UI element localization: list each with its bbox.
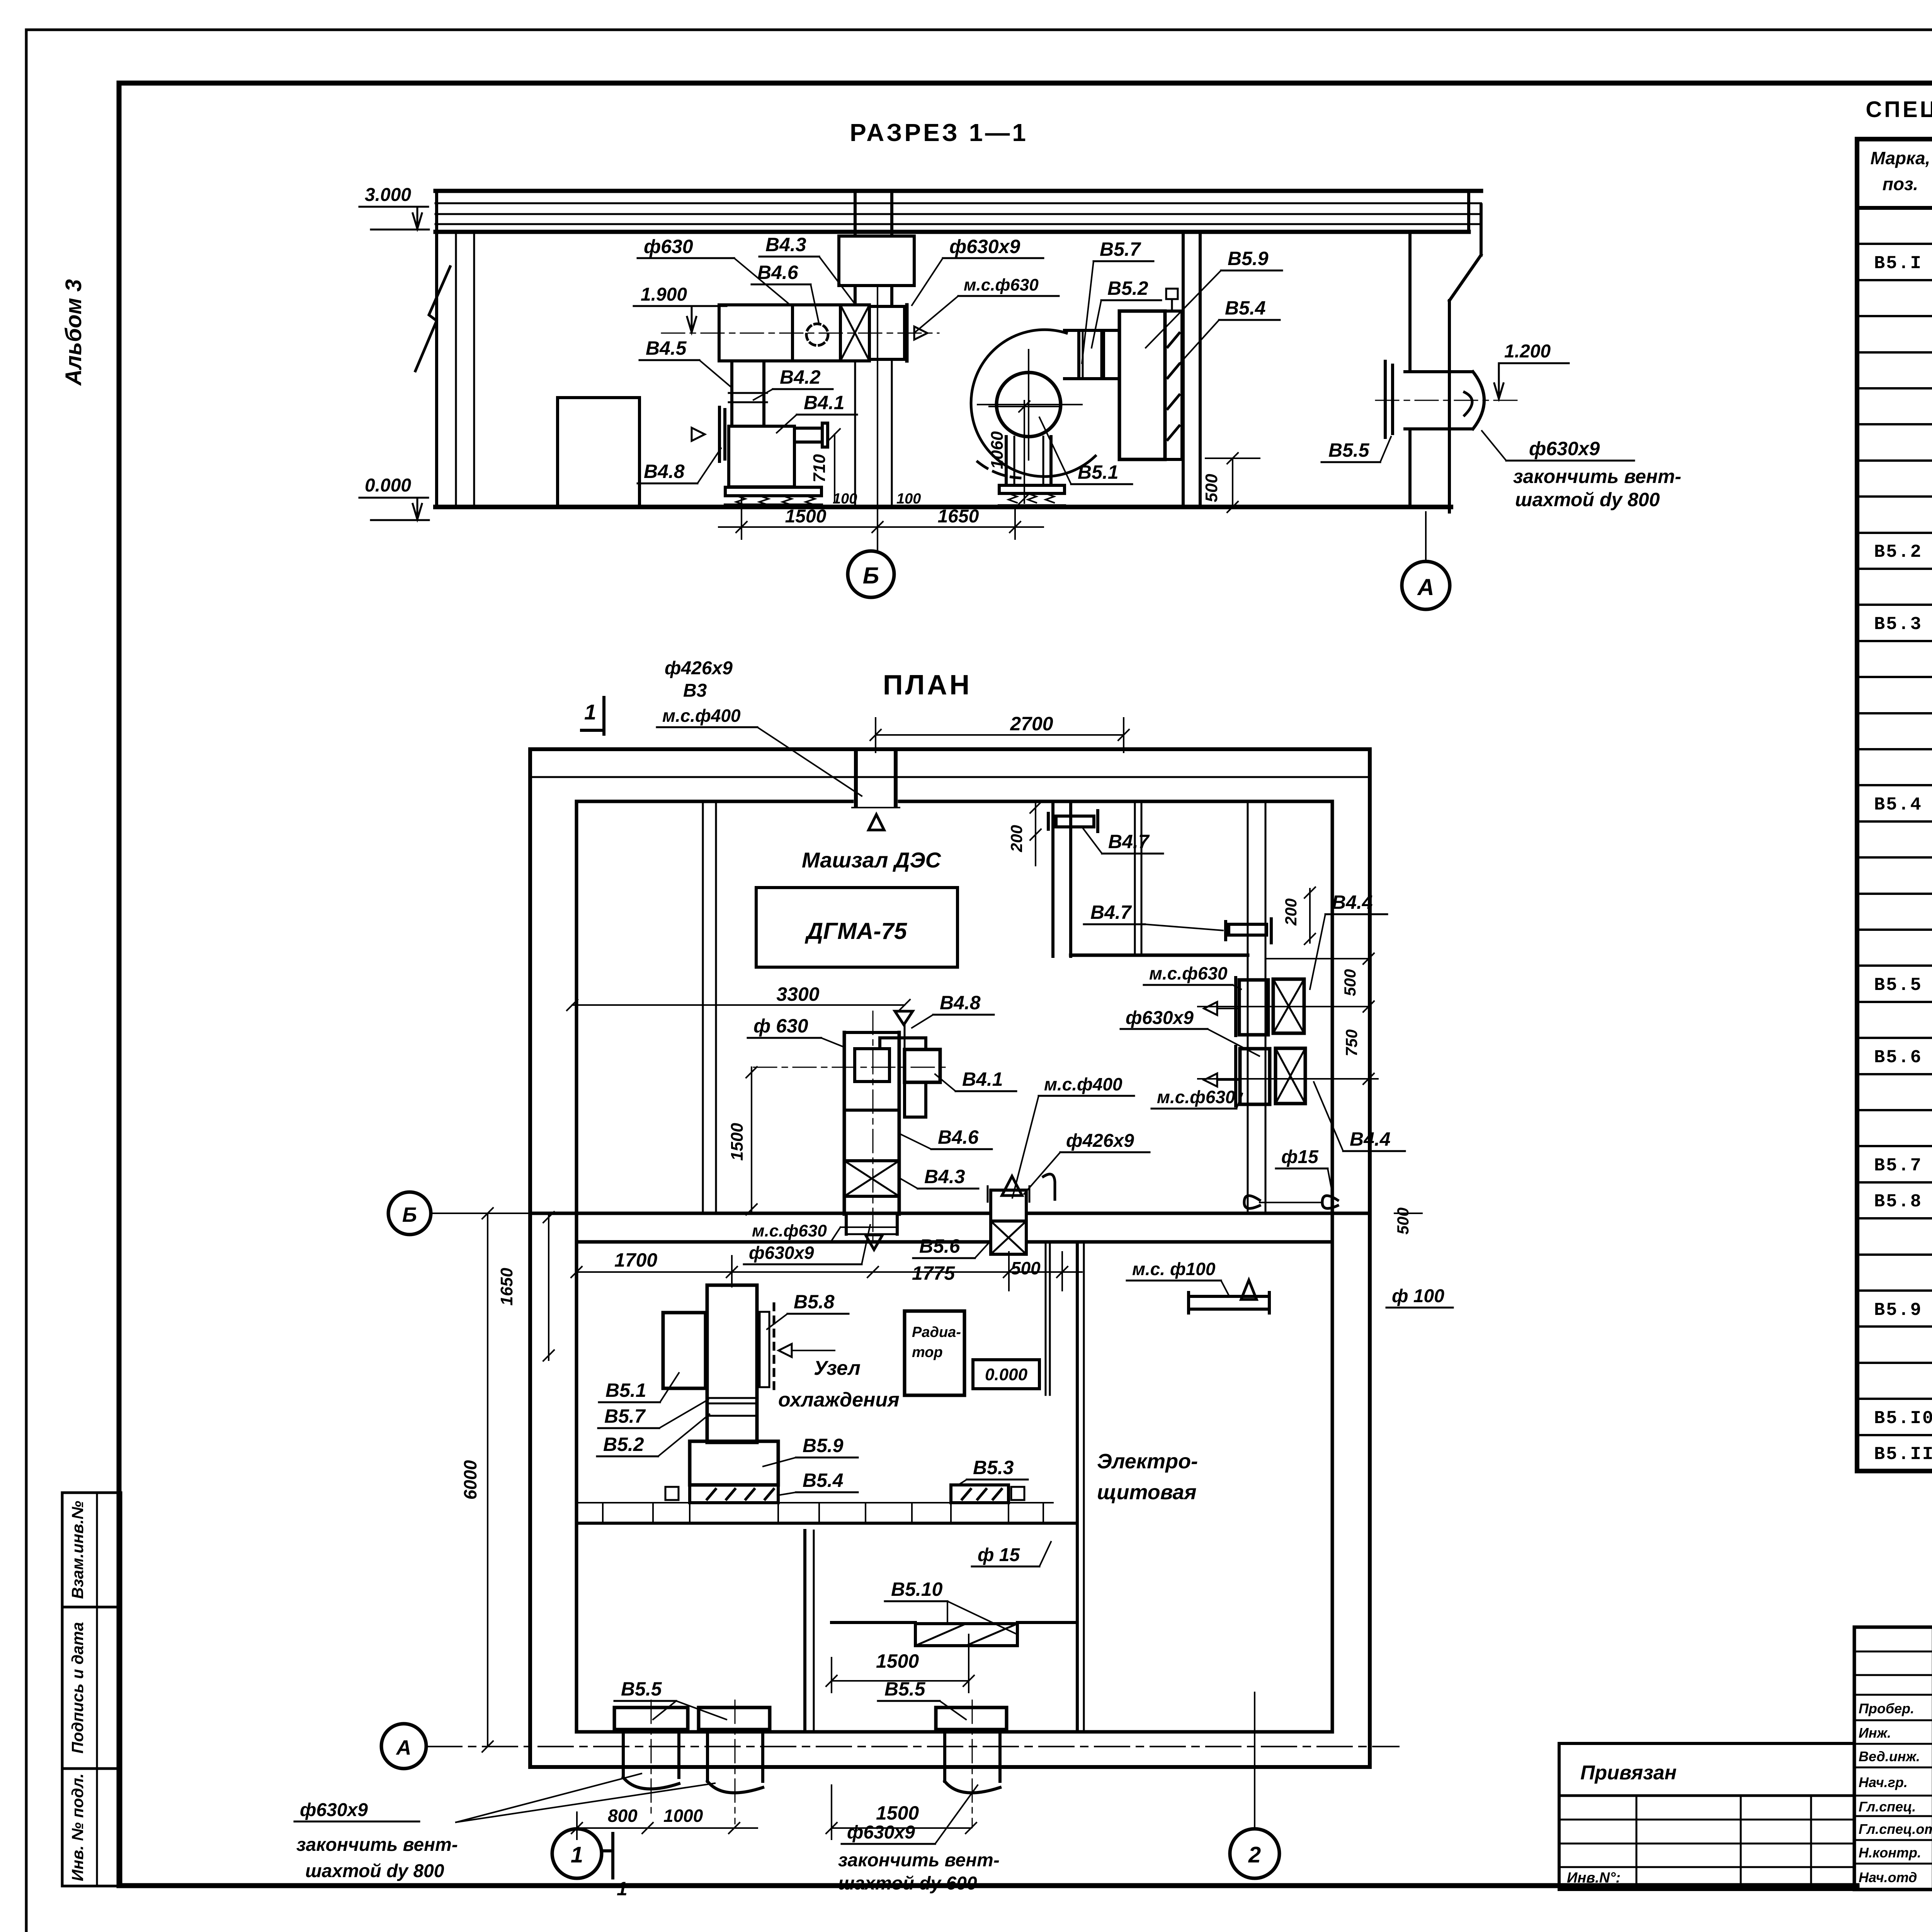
svg-text:В5.II: В5.II bbox=[1874, 1444, 1932, 1465]
plan: fan cluster B4 vertical duct bbox=[844, 1032, 899, 1214]
svg-text:Вед.инж.: Вед.инж. bbox=[1859, 1748, 1920, 1764]
section: level 1.200 bbox=[1494, 341, 1569, 399]
svg-text:Инв.N°:: Инв.N°: bbox=[1567, 1870, 1621, 1886]
svg-text:200: 200 bbox=[1007, 825, 1026, 852]
plan: small squares near dampers bbox=[665, 1487, 1024, 1500]
plan: interior partition left room bbox=[703, 801, 716, 1213]
svg-text:ф 15: ф 15 bbox=[978, 1545, 1020, 1565]
section: right wall bbox=[1410, 191, 1481, 512]
svg-text:500: 500 bbox=[1011, 1258, 1041, 1278]
svg-text:СПЕЦИФИКАЦИЯ ОТОПИТЕЛЬНО - ВЕ: СПЕЦИФИКАЦИЯ ОТОПИТЕЛЬНО - ВЕНТИЛЯЦИОННО… bbox=[1866, 97, 1932, 122]
section: label B5.2 bbox=[1092, 277, 1161, 348]
svg-text:В4.3: В4.3 bbox=[765, 234, 806, 255]
section: roof duct shaft bbox=[855, 191, 892, 236]
plan: axis A line and circle bbox=[381, 1724, 1399, 1769]
svg-text:В4.8: В4.8 bbox=[644, 461, 685, 482]
plan: labels м.с.Ф630 Ф630х9 below B4.3 bbox=[744, 1221, 896, 1264]
svg-text:ф 630: ф 630 bbox=[753, 1015, 808, 1037]
svg-text:В4.8: В4.8 bbox=[940, 992, 981, 1014]
plan: B5.5 shaft box 2 bbox=[699, 1700, 770, 1824]
svg-text:ф15: ф15 bbox=[1281, 1147, 1319, 1167]
plan: top wall bbox=[530, 749, 1370, 801]
plan: м.с Ф400 label mid bbox=[1012, 1074, 1134, 1198]
plan: label B4.3 plan bbox=[900, 1166, 978, 1189]
section: label B5.5 bbox=[1321, 437, 1391, 462]
svg-text:В5.8: В5.8 bbox=[1874, 1192, 1922, 1212]
section: label B4.2 bbox=[753, 366, 833, 400]
svg-text:Взам.инв.№: Взам.инв.№ bbox=[68, 1501, 87, 1599]
svg-text:В3: В3 bbox=[683, 680, 707, 701]
svg-text:200: 200 bbox=[1282, 898, 1300, 926]
plan: B4.8 check valve mark bbox=[895, 1011, 913, 1048]
plan: section cut mark 1 bottom bbox=[552, 1829, 628, 1900]
svg-text:Нач.гр.: Нач.гр. bbox=[1859, 1774, 1908, 1790]
plan: dim 2700 bbox=[870, 713, 1129, 752]
plan: Ф630х9 label bbox=[1121, 1002, 1259, 1056]
section: fan inlet flange B4.8 bbox=[692, 407, 725, 461]
plan: radiator box bbox=[905, 1311, 964, 1395]
plan: partition lower left room bbox=[805, 1531, 814, 1732]
section: label B4.5 bbox=[639, 337, 730, 386]
plan: cooling unit labels bbox=[597, 1291, 900, 1495]
section: note 630x9 vent shaft dy800 bbox=[1482, 431, 1681, 510]
svg-text:Гл.спец.отд: Гл.спец.отд bbox=[1859, 1821, 1932, 1837]
specification title bbox=[1866, 97, 1932, 122]
svg-text:В5.9: В5.9 bbox=[1874, 1300, 1922, 1321]
svg-text:Привязан: Привязан bbox=[1580, 1762, 1677, 1784]
svg-text:1650: 1650 bbox=[497, 1268, 516, 1306]
svg-text:охлаждения: охлаждения bbox=[778, 1389, 900, 1411]
svg-text:шахтой dу 800: шахтой dу 800 bbox=[305, 1861, 444, 1881]
svg-text:ф630х9: ф630х9 bbox=[300, 1800, 368, 1820]
plan: label B4.4 top bbox=[1310, 891, 1387, 989]
plan: cooling unit B5 inlet duct bbox=[707, 1285, 757, 1442]
svg-text:м.с.ф630: м.с.ф630 bbox=[1149, 963, 1228, 983]
svg-text:шахтой dу 600: шахтой dу 600 bbox=[838, 1873, 977, 1894]
svg-text:Подпись и дата: Подпись и дата bbox=[68, 1622, 87, 1753]
plan: dim 1650 left bbox=[497, 1212, 554, 1361]
section: wall break mark bbox=[415, 267, 450, 371]
plan: Ф426х9 label mid bbox=[1024, 1131, 1150, 1194]
svg-text:ф426х9: ф426х9 bbox=[665, 658, 733, 679]
svg-text:В4.2: В4.2 bbox=[780, 366, 821, 388]
section: sensor on box bbox=[1166, 289, 1178, 311]
section: label Ф630 bbox=[638, 236, 788, 303]
svg-text:500: 500 bbox=[1341, 969, 1359, 996]
section: axis A circle bbox=[1402, 512, 1450, 609]
svg-text:В5.7: В5.7 bbox=[1874, 1156, 1922, 1176]
svg-text:В5.2: В5.2 bbox=[603, 1434, 644, 1455]
plan: partition электрощитовая bbox=[1077, 1242, 1084, 1732]
svg-text:А: А bbox=[1417, 574, 1434, 600]
svg-text:ф630х9: ф630х9 bbox=[1126, 1008, 1194, 1028]
svg-text:Инв. № подл.: Инв. № подл. bbox=[68, 1773, 87, 1881]
plan: label B5.5 left bbox=[614, 1678, 726, 1719]
plan: dim 1500 bottom bbox=[826, 1785, 976, 1839]
svg-text:750: 750 bbox=[1342, 1029, 1361, 1056]
svg-text:В5.6: В5.6 bbox=[919, 1235, 961, 1257]
section: axis B circle bbox=[848, 288, 894, 597]
title block: signature table bbox=[1854, 1627, 1932, 1889]
plan: masonry wall band bbox=[577, 1503, 1077, 1523]
specification table rows text bbox=[1874, 218, 1932, 1465]
svg-text:Инж.: Инж. bbox=[1859, 1725, 1891, 1741]
plan: dims 1775 500 bbox=[732, 1252, 1082, 1291]
svg-text:ДГМА-75: ДГМА-75 bbox=[804, 918, 908, 944]
plan title bbox=[883, 670, 972, 701]
section: dims 100 100 bbox=[833, 491, 921, 507]
svg-text:Пробер.: Пробер. bbox=[1859, 1701, 1914, 1716]
svg-text:1.900: 1.900 bbox=[641, 284, 687, 305]
section: misc cabinet on floor bbox=[558, 398, 639, 506]
svg-text:ПЛАН: ПЛАН bbox=[883, 670, 972, 701]
plan: dim 3300 bbox=[567, 983, 910, 1010]
svg-text:100: 100 bbox=[896, 491, 921, 507]
plan: sleeve B5.6 through wall bbox=[988, 1186, 1029, 1221]
svg-text:1700: 1700 bbox=[614, 1249, 657, 1271]
plan: cooling unit box B5.9 plan bbox=[690, 1441, 778, 1485]
margin stamp box Подпись и дата bbox=[62, 1607, 121, 1769]
svg-text:Б: Б bbox=[863, 563, 879, 588]
section: dim line 1500 1650 bbox=[719, 496, 1043, 539]
plan: sleeve B4.7 top bbox=[1048, 811, 1163, 854]
svg-text:В5.7: В5.7 bbox=[604, 1405, 646, 1427]
svg-text:В4.4: В4.4 bbox=[1350, 1128, 1391, 1150]
section: discharge box B5.9 bbox=[1119, 311, 1165, 459]
svg-text:Электро-: Электро- bbox=[1097, 1450, 1198, 1473]
svg-text:В5.3: В5.3 bbox=[973, 1457, 1014, 1478]
svg-text:В5.5: В5.5 bbox=[621, 1678, 662, 1700]
plan: cluster centerlines bbox=[753, 1011, 951, 1248]
svg-text:Б: Б bbox=[402, 1203, 417, 1226]
section: fan B4.1 bbox=[729, 423, 828, 487]
section: unit centerline bbox=[662, 333, 939, 334]
plan: note +426x9 B3 м.с.Ф400 bbox=[657, 658, 862, 796]
section: label +630x9 bbox=[912, 236, 1043, 305]
svg-text:ф630х9: ф630х9 bbox=[1529, 438, 1600, 459]
svg-text:В4.1: В4.1 bbox=[804, 392, 845, 413]
section: dim 1060 bbox=[988, 401, 1059, 504]
plan: label B5.5 mid bbox=[878, 1678, 966, 1719]
plan: sleeve B4.7 right bbox=[1084, 901, 1271, 943]
section: label B4.6 bbox=[752, 262, 819, 325]
plan: axis Б line and circle bbox=[388, 1192, 530, 1235]
plan: dim 6000 left bbox=[460, 1208, 493, 1752]
plan: label Ф630 plan bbox=[748, 1015, 844, 1047]
plan: right wall bbox=[1332, 749, 1370, 1767]
plan: dim 1500 mid bbox=[826, 1634, 974, 1692]
plan: bottom wall bbox=[530, 1732, 1370, 1767]
svg-text:1500: 1500 bbox=[728, 1123, 747, 1161]
svg-text:В5.I: В5.I bbox=[1874, 253, 1922, 274]
section: label B4.1 bbox=[777, 392, 857, 433]
svg-text:В5.4: В5.4 bbox=[1225, 297, 1266, 319]
plan: B4.1 fan top boxes bbox=[855, 1038, 940, 1117]
svg-text:В5.5: В5.5 bbox=[1874, 975, 1922, 996]
svg-text:тор: тор bbox=[912, 1344, 943, 1361]
svg-text:В4.5: В4.5 bbox=[646, 337, 687, 359]
handwritten Альбом 3 bbox=[61, 279, 86, 386]
svg-text:В5.1: В5.1 bbox=[605, 1379, 646, 1401]
svg-text:В5.9: В5.9 bbox=[803, 1435, 844, 1456]
plan: B5.8 guard bbox=[760, 1304, 774, 1393]
section: label B5.1 bbox=[1039, 417, 1132, 484]
svg-text:1500: 1500 bbox=[876, 1802, 919, 1824]
section: left wall bbox=[437, 191, 474, 507]
svg-text:800: 800 bbox=[608, 1806, 638, 1826]
section: damper B4.3 cross box bbox=[840, 305, 869, 361]
svg-text:В5.2: В5.2 bbox=[1107, 277, 1148, 299]
section: fan base and vibro mounts bbox=[725, 487, 821, 505]
specification table grid bbox=[1857, 139, 1932, 1471]
svg-text:В4.6: В4.6 bbox=[938, 1126, 979, 1148]
svg-text:ф630х9: ф630х9 bbox=[949, 236, 1020, 257]
plan: upper right room walls bbox=[1053, 801, 1265, 1213]
svg-text:2: 2 bbox=[1248, 1842, 1261, 1867]
svg-text:2700: 2700 bbox=[1010, 713, 1053, 735]
section: level 1.900 bbox=[634, 284, 726, 332]
svg-text:0.000: 0.000 bbox=[365, 475, 411, 496]
svg-text:м.с. ф100: м.с. ф100 bbox=[1132, 1259, 1216, 1279]
plan: 0.000 box bbox=[973, 1360, 1039, 1389]
plan: chase wall near radiator bbox=[1046, 1242, 1050, 1395]
svg-text:закончить вент-: закончить вент- bbox=[838, 1850, 1000, 1871]
plan: dim 200 top bbox=[1007, 801, 1041, 866]
svg-text:500: 500 bbox=[1202, 474, 1221, 502]
plan: label B4.4 bottom bbox=[1314, 1082, 1405, 1151]
section: partition wall right of fan bbox=[1183, 231, 1200, 507]
svg-text:Альбом 3: Альбом 3 bbox=[61, 279, 86, 386]
svg-text:6000: 6000 bbox=[460, 1460, 480, 1500]
svg-text:3300: 3300 bbox=[776, 983, 819, 1005]
plan: B4.4 box lower bbox=[1198, 1046, 1378, 1106]
section: level mark 0.000 bbox=[359, 475, 429, 520]
svg-text:ф630: ф630 bbox=[644, 236, 693, 257]
svg-text:500: 500 bbox=[1394, 1207, 1412, 1235]
svg-text:В4.1: В4.1 bbox=[962, 1068, 1003, 1090]
svg-text:Н.контр.: Н.контр. bbox=[1859, 1845, 1921, 1861]
section: label B5.4 bbox=[1175, 297, 1280, 369]
svg-text:Машзал ДЭС: Машзал ДЭС bbox=[802, 848, 942, 872]
svg-text:1500: 1500 bbox=[876, 1650, 919, 1672]
plan: м.с.Ф630 B4.4 lower bbox=[1151, 1073, 1242, 1109]
svg-text:1000: 1000 bbox=[663, 1806, 703, 1826]
plan: room wall stub to dim bbox=[1265, 958, 1369, 959]
svg-text:м.с.ф630: м.с.ф630 bbox=[1157, 1087, 1235, 1107]
svg-text:В4.4: В4.4 bbox=[1332, 891, 1373, 913]
section: vertical duct B4 bbox=[729, 361, 767, 426]
section: label м.с.Ф630 bbox=[915, 276, 1059, 332]
title block: Привязан box bbox=[1559, 1743, 1854, 1889]
svg-text:1: 1 bbox=[571, 1842, 583, 1867]
svg-text:В5.6: В5.6 bbox=[1874, 1048, 1922, 1068]
svg-text:В5.4: В5.4 bbox=[1874, 795, 1922, 815]
svg-text:закончить вент-: закончить вент- bbox=[296, 1835, 458, 1855]
margin stamp box Инв.№ подл. bbox=[62, 1769, 121, 1886]
section: floor line bbox=[435, 505, 1451, 509]
section: roof slab bbox=[435, 191, 1481, 232]
plan: roof sleeve м.с.Ф400 bbox=[852, 752, 900, 830]
svg-text:В5.10: В5.10 bbox=[891, 1578, 943, 1600]
plan: label B5.6 bbox=[913, 1235, 991, 1258]
svg-text:Марка,: Марка, bbox=[1871, 148, 1930, 168]
plan: filter strip B5.4 plan bbox=[690, 1485, 778, 1503]
svg-text:ф630х9: ф630х9 bbox=[847, 1822, 915, 1843]
svg-text:В4.7: В4.7 bbox=[1090, 901, 1132, 923]
plan: riser triangle and hook bbox=[1002, 1174, 1055, 1199]
plan: axis 2 circle bbox=[1230, 1692, 1279, 1878]
plan: section cut mark 1 top bbox=[582, 697, 604, 734]
plan: note vent shaft dy600 bbox=[838, 1785, 1000, 1894]
svg-text:закончить вент-: закончить вент- bbox=[1513, 466, 1681, 487]
plan: +15 label bbox=[972, 1542, 1051, 1566]
svg-text:В5.8: В5.8 bbox=[794, 1291, 835, 1313]
plan: +100 label bbox=[1386, 1286, 1453, 1308]
svg-text:м.с.ф630: м.с.ф630 bbox=[752, 1221, 827, 1240]
margin stamp box Взам.инв.№ bbox=[62, 1493, 121, 1607]
section: level mark 3.000 bbox=[359, 185, 429, 230]
svg-text:ф426х9: ф426х9 bbox=[1066, 1131, 1134, 1151]
svg-text:поз.: поз. bbox=[1883, 174, 1918, 194]
svg-text:710: 710 bbox=[810, 454, 829, 483]
svg-text:В5.5: В5.5 bbox=[884, 1678, 926, 1700]
section: filter column B5.4 bbox=[1165, 311, 1182, 459]
svg-text:ф630х9: ф630х9 bbox=[749, 1243, 814, 1263]
svg-text:В5.9: В5.9 bbox=[1228, 248, 1269, 269]
svg-text:ф 100: ф 100 bbox=[1392, 1286, 1444, 1306]
plan: right dims 500 750 500 bbox=[1341, 947, 1422, 1235]
svg-text:Радиа-: Радиа- bbox=[912, 1324, 961, 1340]
plan: м.с.Ф630 B4.4 upper bbox=[1144, 963, 1241, 989]
plan: Машзал ДЭС label bbox=[802, 848, 942, 872]
plan: left wall bbox=[530, 749, 577, 1767]
plan: fan cluster damper B4.3 bbox=[844, 1161, 899, 1250]
svg-text:1775: 1775 bbox=[912, 1262, 955, 1284]
plan: Ф15 pipe bbox=[1244, 1147, 1338, 1208]
plan: dim 200 right bbox=[1282, 887, 1315, 944]
section: dim 710 bbox=[810, 429, 840, 502]
plan: dims 800 1000 bbox=[571, 1806, 757, 1839]
svg-text:А: А bbox=[396, 1736, 412, 1759]
plan: label B4.6 plan bbox=[900, 1126, 992, 1149]
section: label B5.9 bbox=[1146, 248, 1282, 348]
svg-text:100: 100 bbox=[833, 491, 857, 507]
plan: cooling unit motor B5.1 bbox=[663, 1313, 706, 1388]
specification table header text bbox=[1871, 148, 1932, 197]
section: fan discharge duct and flex B5.2 bbox=[1065, 330, 1119, 379]
plan: м.с.Ф100 sleeve bbox=[1127, 1259, 1269, 1313]
svg-text:В5.I0: В5.I0 bbox=[1874, 1408, 1932, 1429]
plan: ДГМА-75 unit bbox=[756, 888, 957, 967]
plan: label B4.1 plan bbox=[935, 1068, 1016, 1091]
svg-text:1500: 1500 bbox=[785, 506, 827, 527]
svg-text:В5.7: В5.7 bbox=[1100, 238, 1141, 260]
svg-text:шахтой dу 800: шахтой dу 800 bbox=[1515, 489, 1660, 510]
plan: damper B5.3 bbox=[951, 1457, 1028, 1503]
plan: B5.6 damper box bbox=[991, 1221, 1026, 1254]
svg-text:м.с.ф630: м.с.ф630 bbox=[964, 276, 1039, 294]
svg-text:1: 1 bbox=[617, 1878, 628, 1900]
section: fan B5.1 pedestal bbox=[999, 437, 1065, 506]
svg-text:м.с.ф400: м.с.ф400 bbox=[1044, 1074, 1122, 1094]
plan: dim 1700 bbox=[571, 1249, 737, 1287]
plan: B5.5 shaft box 1 bbox=[614, 1700, 688, 1816]
section: label B4.3 bbox=[759, 234, 855, 304]
svg-text:щитовая: щитовая bbox=[1097, 1481, 1197, 1504]
plan: note vent shaft dy800 left bbox=[294, 1774, 715, 1881]
svg-text:1650: 1650 bbox=[938, 506, 979, 527]
plan: B5.5 shaft box 3 bbox=[936, 1700, 1007, 1828]
section: flow arrow right of unit bbox=[914, 327, 927, 340]
svg-text:3.000: 3.000 bbox=[365, 185, 411, 205]
svg-text:м.с.ф400: м.с.ф400 bbox=[662, 706, 741, 726]
svg-text:В5.4: В5.4 bbox=[803, 1469, 844, 1491]
plan: B4.4 box upper bbox=[1198, 978, 1369, 1036]
svg-text:Гл.спец.: Гл.спец. bbox=[1859, 1799, 1916, 1815]
svg-text:В5.2: В5.2 bbox=[1874, 542, 1922, 563]
svg-text:В4.3: В4.3 bbox=[924, 1166, 965, 1187]
svg-text:В4.7: В4.7 bbox=[1108, 831, 1150, 852]
svg-text:В4.6: В4.6 bbox=[757, 262, 799, 283]
section: dim 500 right bbox=[1202, 453, 1260, 512]
svg-text:В5.1: В5.1 bbox=[1078, 461, 1119, 483]
plan: dim 1500 left bbox=[728, 1067, 757, 1215]
section: label B5.7 bbox=[1082, 238, 1153, 363]
svg-text:1.200: 1.200 bbox=[1504, 341, 1551, 362]
section: fan B5.1 scroll bbox=[971, 330, 1095, 478]
plan: Электрощитовая label bbox=[1097, 1450, 1198, 1504]
section: label B4.8 bbox=[638, 448, 721, 483]
plan: axis Б wall bbox=[530, 1213, 1370, 1242]
svg-text:РАЗРЕЗ 1—1: РАЗРЕЗ 1—1 bbox=[850, 119, 1028, 146]
section: duct connector m.s.630 bbox=[869, 305, 907, 361]
section: air handling unit B4 bbox=[719, 305, 840, 361]
svg-text:Нач.отд: Нач.отд bbox=[1859, 1869, 1917, 1885]
section: B5.5 duct through wall bbox=[1376, 361, 1522, 437]
plan: filter frame B5.10 bbox=[832, 1578, 1077, 1646]
svg-text:В5.3: В5.3 bbox=[1874, 614, 1922, 635]
section title РАЗРЕЗ 1-1 bbox=[850, 119, 1028, 146]
svg-text:Узел: Узел bbox=[814, 1357, 861, 1379]
plan: label B4.8 plan bbox=[912, 992, 994, 1028]
svg-text:0.000: 0.000 bbox=[985, 1365, 1028, 1384]
svg-text:1: 1 bbox=[584, 700, 596, 724]
section: distribution box on duct bbox=[839, 236, 914, 507]
svg-text:В5.5: В5.5 bbox=[1328, 439, 1370, 461]
